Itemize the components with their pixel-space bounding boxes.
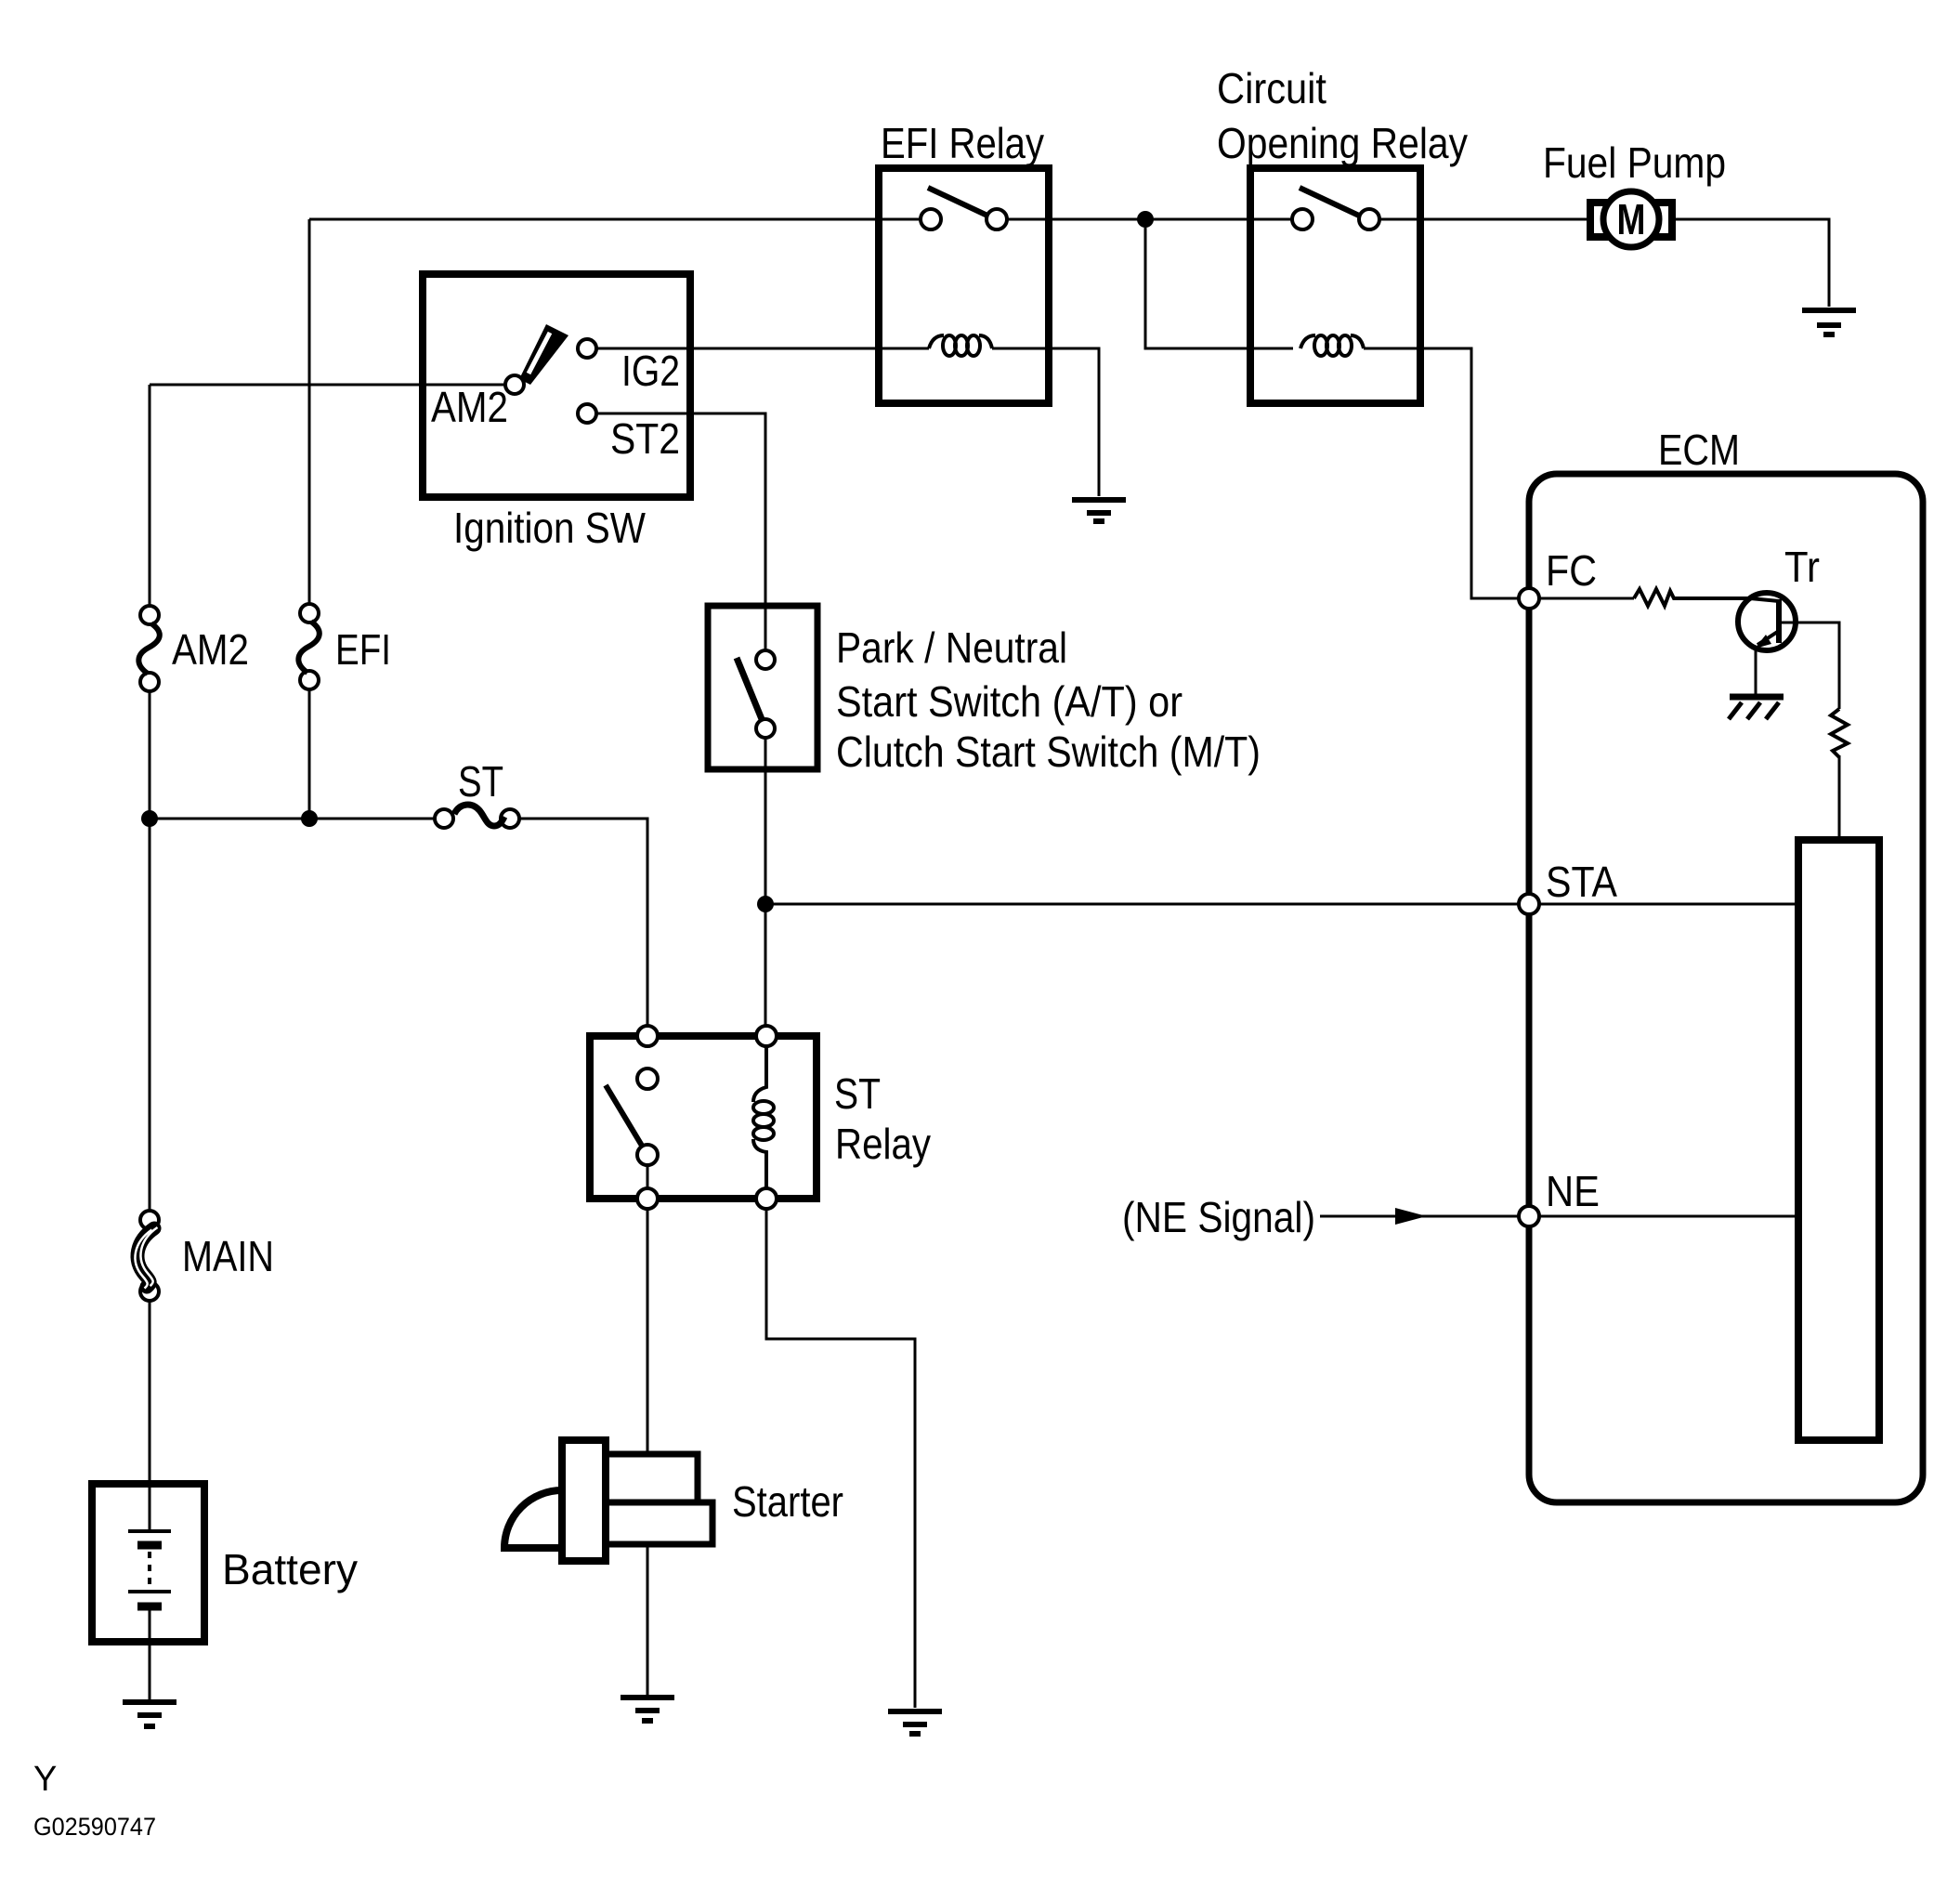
EFI relay switch contact left [921,209,941,229]
svg-text:Opening Relay: Opening Relay [1217,119,1468,167]
resistor R2 vertical [1831,709,1848,757]
terminal NE of ECM [1519,1206,1539,1226]
EFI relay switch blade [928,188,987,216]
wire B+ top rail from EFI branch to EFI relay [309,218,921,221]
wire STA rail [765,903,1519,906]
wire fuel pump to ground drop [1673,219,1829,307]
park neutral switch bottom contact [756,719,775,738]
svg-text:Fuel Pump: Fuel Pump [1543,138,1726,187]
svg-text:AM2: AM2 [431,383,508,431]
ST relay box [590,1036,817,1199]
park neutral switch box [708,606,817,769]
svg-text:Battery: Battery [222,1545,358,1593]
wire IG2 to EFI relay coil [596,347,929,350]
wire ST2 to park/neutral switch [596,413,765,606]
node junction dot EFI branch [301,810,318,827]
COR switch contact right [1359,209,1379,229]
wire junction rail to ST fuse [150,818,435,820]
ST relay terminal top-right [756,1026,777,1046]
wire EFI relay coil to ground [992,348,1099,496]
node junction dot at EFI relay output [1137,211,1154,228]
ST relay terminal bottom-left [637,1188,658,1209]
wire EFI fuse to junction rail [308,689,311,819]
wire NE signal arrow [1320,1215,1519,1218]
svg-text:FC: FC [1546,546,1597,595]
svg-text:ECM: ECM [1658,426,1740,474]
EFI relay switch contact right [987,209,1007,229]
wire battery positive [149,1484,151,1529]
wire transistor emitter to signal ground [1755,650,1757,695]
svg-text:ST2: ST2 [610,414,680,463]
wire into park/neutral switch [764,606,767,650]
wire COR output to fuel pump [1379,218,1589,221]
EFI relay coil [929,335,992,356]
svg-text:Ignition SW: Ignition SW [453,504,647,552]
park neutral switch blade [737,658,762,719]
wire ST fuse to ST relay switch [519,819,647,1031]
fuel pump motor [1590,191,1672,247]
wire AM2 branch vertical [149,385,151,606]
fusible link MAIN [135,1211,159,1301]
key lever of ignition switch [519,324,568,385]
park neutral switch top contact [756,650,775,669]
wire COR coil to FC [1364,348,1519,598]
svg-text:Relay: Relay [835,1120,931,1168]
wire resistor R2 to IC block [1838,755,1841,840]
wire MAIN link vertical upper [149,819,151,1210]
ST relay switch lower contact [637,1145,658,1165]
wire STA inside ECM [1539,903,1798,906]
svg-text:ST: ST [458,757,503,806]
COR relay box [1250,168,1420,403]
battery plates [128,1531,171,1606]
wire battery negative to ground [149,1610,151,1699]
svg-text:Y: Y [33,1760,57,1799]
svg-text:Tr: Tr [1784,543,1820,591]
ignition switch box [423,274,690,497]
ST relay switch blade [606,1085,645,1150]
svg-text:Clutch Start Switch (M/T): Clutch Start Switch (M/T) [836,728,1261,776]
fuse AM2 [138,606,159,691]
ground starter [621,1698,674,1721]
wire starter to ground [647,1544,649,1695]
wire EFI relay output to COR input [1007,218,1292,221]
wire AM2 fuse to junction rail [149,691,151,819]
terminal AM2 of ignition switch [505,375,524,394]
svg-text:Park / Neutral: Park / Neutral [836,623,1067,672]
svg-text:IG2: IG2 [621,347,680,395]
fuse ST [435,805,519,828]
svg-text:MAIN: MAIN [182,1232,274,1280]
wire MAIN link to battery [149,1301,151,1484]
node junction dot STA [757,896,774,912]
terminal ST2 of ignition switch [578,404,596,423]
wire ST relay lower contact to bottom terminal [647,1165,649,1188]
resistor R1 FC base resistor [1634,589,1750,606]
transistor Tr [1738,593,1796,650]
IC block inside ECM [1798,840,1879,1440]
fuse EFI [298,604,319,689]
wire NE inside ECM [1539,1215,1798,1218]
svg-text:EFI Relay: EFI Relay [881,119,1044,167]
svg-text:M: M [1617,195,1646,243]
terminal STA of ECM [1519,894,1539,914]
arrowhead NE signal [1395,1208,1427,1225]
svg-text:Start Switch (A/T) or: Start Switch (A/T) or [836,677,1183,726]
battery box [92,1484,204,1642]
starter body vertical block [562,1440,606,1561]
wire junction down to COR coil feed [1145,228,1293,348]
ground ST relay coil return [888,1711,942,1734]
ST relay coil [753,1046,774,1188]
terminal FC of ECM [1519,588,1539,609]
signal ground hatched under transistor [1729,697,1784,719]
wire EFI branch vertical [308,219,311,604]
starter solenoid bell [504,1490,562,1548]
EFI relay box [879,168,1049,403]
node junction dot AM2/MAIN [141,810,158,827]
terminal IG2 of ignition switch [578,339,596,358]
wire AM2 feed horizontal [150,384,505,387]
ground battery [123,1702,176,1726]
svg-text:(NE Signal): (NE Signal) [1122,1193,1315,1241]
COR switch contact left [1292,209,1313,229]
svg-text:G02590747: G02590747 [33,1813,156,1841]
svg-text:Starter: Starter [732,1477,843,1526]
svg-text:ST: ST [834,1069,881,1118]
ST relay terminal top-left [637,1026,658,1046]
starter lower block [606,1502,712,1544]
starter upper block [606,1454,698,1502]
wire FC to resistor [1539,597,1634,600]
COR switch blade [1300,188,1359,216]
ST relay switch upper contact [637,1068,658,1089]
svg-text:STA: STA [1546,858,1617,906]
svg-text:EFI: EFI [335,625,391,674]
wire ST relay to starter [647,1209,649,1454]
ECM box [1529,474,1923,1502]
wire transistor collector to resistor R2 [1779,623,1839,709]
svg-text:AM2: AM2 [172,625,249,674]
wire park/neutral switch down to STA junction and ST relay coil [764,738,767,1031]
svg-text:Circuit: Circuit [1217,64,1326,112]
svg-text:NE: NE [1546,1167,1600,1215]
ground fuel pump [1802,310,1856,334]
wire ST relay coil return to ground [766,1209,915,1708]
ST relay terminal bottom-right [756,1188,777,1209]
ground EFI relay coil [1072,500,1126,521]
COR coil [1300,335,1364,356]
